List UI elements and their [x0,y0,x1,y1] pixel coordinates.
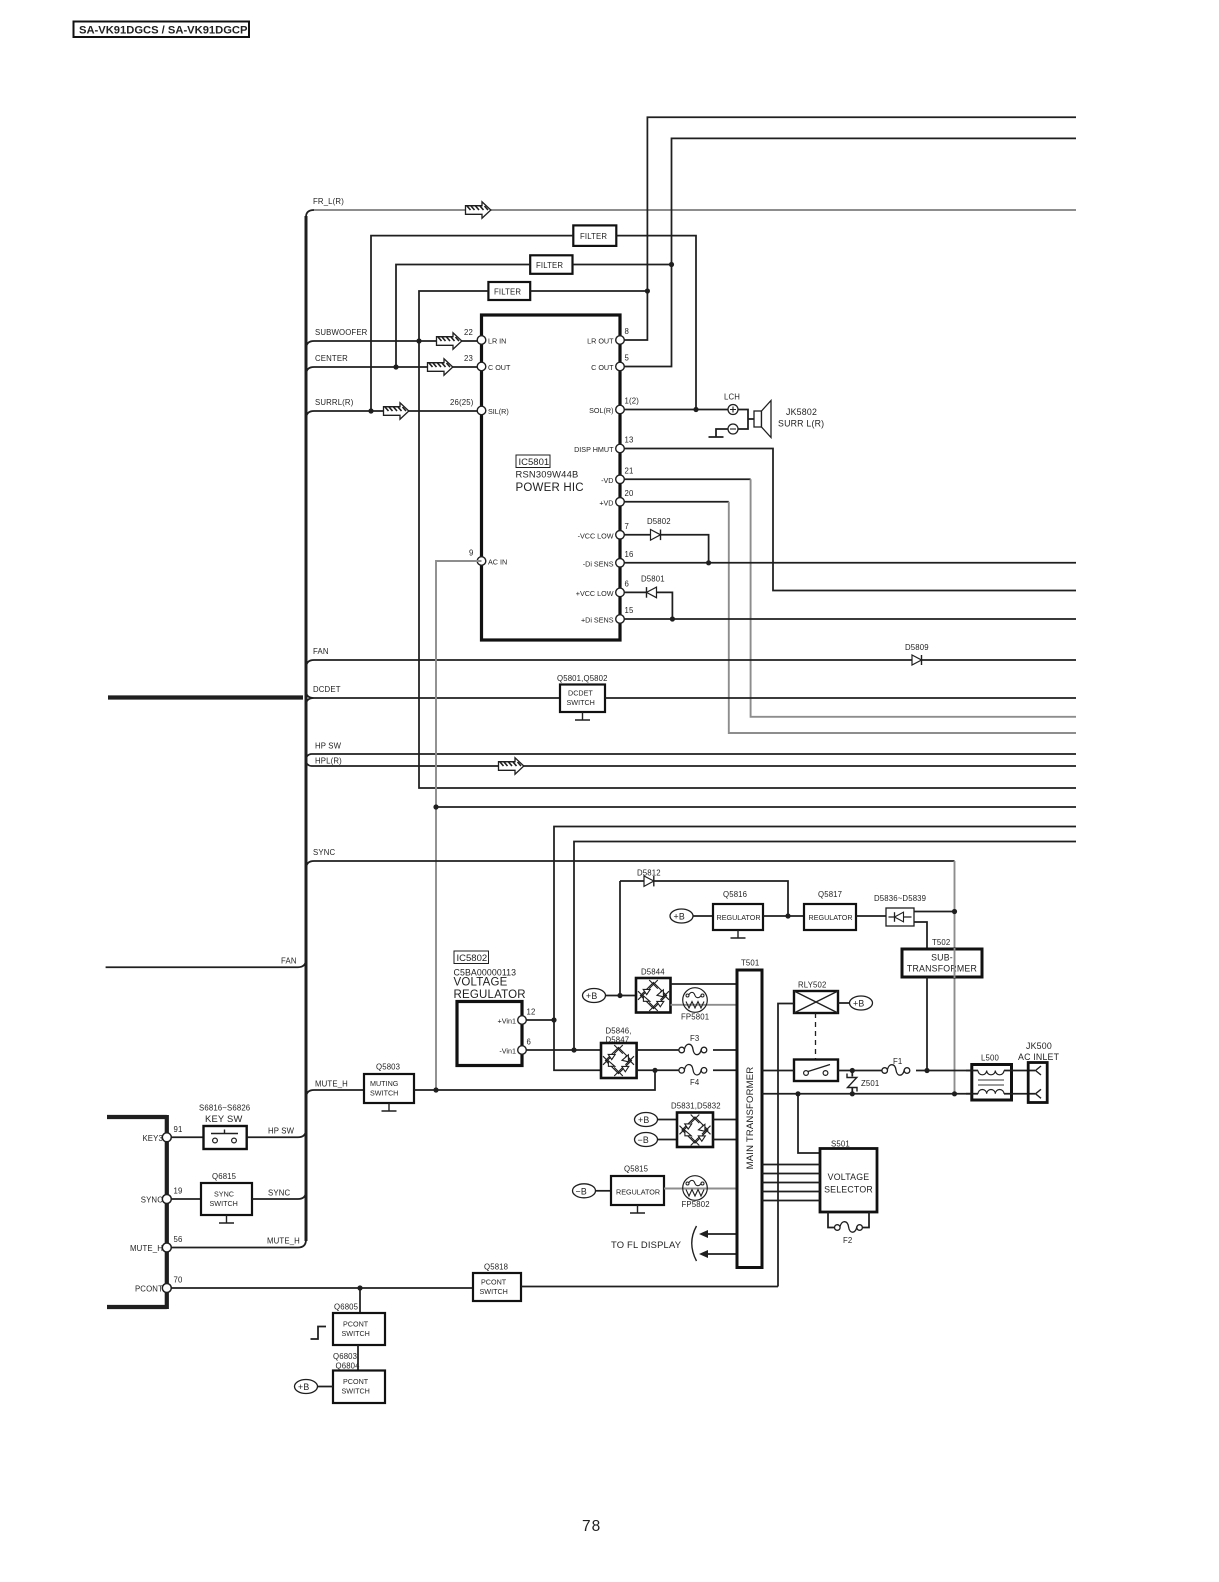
svg-text:22: 22 [464,328,473,337]
diode pack D5836~D5839 [874,894,926,926]
svg-text:−B: −B [638,1135,649,1145]
node junction surrl/filter1 [368,408,373,413]
sub-transformer T502 [902,938,982,977]
svg-text:-VD: -VD [601,476,613,485]
wire gray drop to sub-transformer and AC line [954,861,956,1094]
svg-text:TO FL DISPLAY: TO FL DISPLAY [611,1239,682,1250]
svg-text:-VCC LOW: -VCC LOW [578,531,614,540]
pin 15 +Di SENS [581,606,634,625]
svg-text:PCONT: PCONT [135,1285,163,1294]
step signal symbol (Q6805 input) [311,1327,327,1340]
svg-text:T501: T501 [741,959,759,968]
svg-text:D5836~D5839: D5836~D5839 [874,894,926,903]
wire -Di SENS pin16 [624,562,1076,564]
wire branch at gray junction [436,806,1076,808]
svg-text:POWER HIC: POWER HIC [516,482,584,494]
switch box PCONT SWITCH Q5818 [473,1263,521,1302]
ground (Q5816) [731,930,746,938]
fuse F3 [679,1034,713,1056]
pin 9 AC IN [469,549,507,567]
svg-text:56: 56 [174,1235,183,1244]
wire HPL(R) [312,757,1077,775]
fuse F2 [828,1212,869,1245]
svg-text:1(2): 1(2) [625,397,640,406]
wire filter1 right to SOL(R) line [616,236,696,410]
wire C OUT pin5 riser to top line [620,138,1076,366]
svg-text:D5812: D5812 [637,869,661,878]
wire contact to F1 and L500 [838,1070,972,1072]
svg-text:Q6815: Q6815 [212,1172,237,1181]
wire Q5815 out through FP5802 [664,1188,737,1190]
svg-text:26(25): 26(25) [450,398,474,407]
svg-text:D5801: D5801 [641,575,665,584]
wire -VD pin21 [624,478,750,480]
wire line to IC5802 +Vin1 [554,827,1076,1071]
switch box SYNC SWITCH Q6815 [201,1172,252,1215]
svg-text:AC INLET: AC INLET [1018,1052,1060,1062]
line filter L500 [972,1054,1012,1101]
svg-text:SWITCH: SWITCH [342,1387,370,1396]
svg-text:-Vin1: -Vin1 [499,1047,516,1056]
wire FAN [306,647,1076,668]
svg-text:HP SW: HP SW [315,742,342,751]
wire +B to Q6803 box [318,1386,334,1388]
ground (speaker -) [709,429,729,437]
diode D5802 [647,517,671,540]
svg-text:Q5817: Q5817 [818,890,842,899]
wire -B to Q5815 [596,1190,612,1192]
svg-text:SIL(R): SIL(R) [488,407,509,416]
node +B (relay) [850,996,873,1010]
wires D5831 outputs to transformer [713,1120,737,1140]
svg-text:MUTING: MUTING [370,1079,399,1088]
svg-text:KEY SW: KEY SW [205,1113,243,1124]
svg-text:FILTER: FILTER [580,232,607,241]
node +B (D5844) [583,989,606,1003]
svg-text:+B: +B [638,1115,649,1125]
svg-text:Q6803,: Q6803, [333,1352,359,1361]
svg-text:RSN309W44B: RSN309W44B [516,469,579,480]
wire CENTER [306,354,477,375]
wire +B to D5844 [606,995,637,997]
svg-text:FILTER: FILTER [494,288,521,297]
wire diode pack lower out to T502 [914,922,927,949]
svg-text:VOLTAGE: VOLTAGE [454,977,508,989]
svg-text:5: 5 [625,354,630,363]
regulator Q5815 [611,1165,664,1206]
node -B (D5831) [635,1133,658,1147]
svg-text:VOLTAGE: VOLTAGE [828,1172,870,1182]
fuse FP5801 [681,988,709,1022]
svg-text:SWITCH: SWITCH [567,698,595,707]
node LCH - terminal [728,424,738,434]
wire +Di SENS pin15 [624,618,1076,620]
diode D5812 [620,869,788,917]
wire from filter3 riser down to right [419,341,1076,788]
svg-text:LR OUT: LR OUT [587,337,614,346]
svg-text:FP5801: FP5801 [681,1013,709,1022]
wire PCONT to pcont switch [171,1287,473,1289]
wire -Vin1 to bridge [526,1049,601,1051]
pin 19 SYNC [141,1187,183,1205]
relay RLY502 coil [794,981,838,1014]
filter box FILTER (bottom) [488,282,530,300]
svg-text:DISP HMUT: DISP HMUT [574,445,614,454]
wire HP SW [306,742,1076,767]
connector JK500 AC INLET [1018,1041,1060,1103]
switch box PCONT SWITCH Q6803,Q6804 [333,1352,385,1403]
svg-text:SELECTOR: SELECTOR [824,1185,873,1195]
relay contact box [794,1060,838,1082]
wire LR OUT pin8 riser to top line [620,117,1076,340]
main transformer T501 [737,959,762,1268]
node -B (Q5815) [573,1184,596,1198]
TO FL DISPLAY arrows [611,1226,737,1261]
svg-text:91: 91 [174,1125,183,1134]
svg-text:SURRL(R): SURRL(R) [315,398,354,407]
wire FR_L(R) [306,197,1076,218]
svg-text:70: 70 [174,1276,183,1285]
svg-text:SWITCH: SWITCH [210,1199,238,1208]
svg-text:12: 12 [527,1008,536,1017]
svg-text:Q5801,Q5802: Q5801,Q5802 [557,674,608,683]
wire sync gray through T502 [954,948,956,978]
svg-text:SYNC: SYNC [313,848,335,857]
bus: main vertical wire bus [305,216,308,1241]
svg-text:D5844: D5844 [641,968,665,977]
svg-text:MUTE_H: MUTE_H [267,1237,300,1246]
wire relay coil left to PCONT riser [778,1004,794,1287]
svg-text:JK5802: JK5802 [786,407,817,417]
svg-text:S6816~S6826: S6816~S6826 [199,1104,250,1113]
wire +VD pin20 [624,501,729,503]
svg-text:7: 7 [625,522,630,531]
wire filter3 right to LR OUT riser [530,290,647,292]
svg-text:AC IN: AC IN [488,558,507,567]
fuse F4 [679,1064,713,1087]
svg-text:15: 15 [625,606,634,615]
svg-text:PCONT: PCONT [343,1320,369,1329]
pin 56 MUTE_H [130,1235,182,1253]
ground (sync switch) [219,1215,234,1223]
pin 23 C OUT [464,354,511,372]
svg-text:PCONT: PCONT [481,1278,507,1287]
node +B (Q6803) [295,1380,318,1394]
svg-text:FP5802: FP5802 [682,1200,710,1209]
svg-text:Q5818: Q5818 [484,1263,508,1272]
pin 16 -Di SENS [583,550,634,568]
filter box FILTER (top) [573,225,616,246]
filter box FILTER (middle) [530,255,572,273]
diode D5809 [905,643,929,665]
pin 12 +Vin1 [498,1008,536,1026]
svg-text:F2: F2 [843,1236,852,1245]
IC5802 VOLTAGE REGULATOR box [454,951,526,1066]
svg-text:SYNC: SYNC [268,1189,290,1198]
wire Q5816 to Q5817 [763,915,804,917]
switch box MUTING SWITCH Q5803 [364,1063,414,1104]
wire key sw to bus (HP SW) [247,1127,306,1138]
svg-text:F3: F3 [690,1034,699,1043]
wire line to IC5802 -Vin1 [574,842,1076,1051]
connector bracket (board edge) [107,1115,167,1309]
svg-text:Q5815: Q5815 [624,1165,649,1174]
svg-text:FR_L(R): FR_L(R) [313,197,344,206]
svg-text:MUTE_H: MUTE_H [315,1080,348,1089]
svg-text:L500: L500 [981,1054,999,1063]
svg-text:KEY3: KEY3 [142,1134,163,1143]
svg-text:SWITCH: SWITCH [370,1089,398,1098]
svg-text:IC5801: IC5801 [519,457,550,468]
node LCH + terminal [724,393,740,415]
node +B (D5831) [635,1113,658,1127]
bridge D5844 [636,968,671,1013]
svg-text:Z501: Z501 [861,1079,879,1088]
bridge D5846,D5847 [601,1027,637,1079]
svg-text:+B: +B [853,999,864,1009]
wire SYNC to sync switch [171,1198,201,1200]
svg-text:D5846,: D5846, [606,1027,632,1036]
wire SYNC [306,848,955,869]
pin 6 +VCC LOW [576,580,629,598]
ground (DCDET switch) [575,712,590,720]
switch KEY SW S6816~S6826 [199,1104,250,1150]
svg-text:REGULATOR: REGULATOR [454,989,526,1001]
svg-text:HP SW: HP SW [268,1127,295,1136]
pin 1(2) SOL(R) [589,397,639,416]
wire +VCC LOW pin6 [624,592,672,619]
svg-text:9: 9 [469,549,474,558]
wires to D5831 bridge [658,1120,678,1140]
svg-text:REGULATOR: REGULATOR [809,913,853,922]
pin 70 PCONT [135,1276,183,1294]
node junction center/filter2 [393,364,398,369]
fuse F1 [882,1057,916,1077]
svg-text:FAN: FAN [313,647,329,656]
svg-text:13: 13 [625,436,634,445]
svg-text:8: 8 [625,327,630,336]
svg-text:SOL(R): SOL(R) [589,406,613,415]
svg-text:LCH: LCH [724,393,740,402]
wires transformer taps to selector [762,1165,820,1201]
voltage selector S501 [820,1140,877,1213]
wire speaker terminals [738,410,754,430]
svg-text:SUBWOOFER: SUBWOOFER [315,328,368,337]
pin 26(25) SIL(R) [450,398,509,416]
svg-text:78: 78 [582,1518,601,1535]
wire Q5818 to relay riser [521,1286,778,1288]
svg-text:21: 21 [625,467,634,476]
svg-text:T502: T502 [932,938,950,947]
svg-text:MUTE_H: MUTE_H [130,1244,163,1253]
regulator Q5816 [713,890,763,930]
svg-text:+VCC LOW: +VCC LOW [576,589,614,598]
wire SOL(R) to speaker [624,409,728,411]
svg-text:D5802: D5802 [647,517,671,526]
wire bridge lower output to F4 [637,1069,737,1071]
svg-text:PCONT: PCONT [343,1377,369,1386]
svg-text:23: 23 [464,354,473,363]
svg-text:D5831,D5832: D5831,D5832 [671,1102,721,1111]
svg-text:SWITCH: SWITCH [342,1329,370,1338]
pin 22 LR IN [464,328,506,346]
pin 8 LR OUT [587,327,629,346]
wire sync switch to bus [252,1189,306,1200]
svg-text:CENTER: CENTER [315,354,348,363]
wire AC line to voltage selector [798,1094,820,1153]
wire FAN lower stub [106,957,306,968]
wire D5812 riser to +B rail [619,881,621,996]
svg-text:+Vin1: +Vin1 [498,1017,516,1026]
regulator Q5817 [804,890,856,930]
wire KEY3 to key sw [171,1136,203,1138]
svg-text:C OUT: C OUT [591,363,614,372]
svg-text:SA-VK91DGCS / SA-VK91DGCP: SA-VK91DGCS / SA-VK91DGCP [79,25,248,37]
wire T502 left output down to F1 line [926,977,928,1071]
svg-text:+B: +B [674,912,685,922]
wire thick stub to bus at DCDET [108,695,303,699]
pin 5 C OUT [591,354,629,373]
svg-text:SYNC: SYNC [214,1190,234,1199]
svg-text:REGULATOR: REGULATOR [717,913,761,922]
wires L500 to AC inlet [966,1071,1035,1094]
svg-text:6: 6 [527,1038,532,1047]
svg-text:SURR L(R): SURR L(R) [778,419,824,429]
wire -VCC LOW pin7 [624,535,708,563]
ground (muting switch) [382,1103,397,1111]
svg-text:Q6805: Q6805 [334,1303,359,1312]
pin 21 -VD [601,467,633,485]
svg-text:HPL(R): HPL(R) [315,757,342,766]
svg-text:SUB-: SUB- [931,953,953,963]
svg-text:20: 20 [625,489,634,498]
node junction subwoofer/filter3 [416,338,421,343]
wire Q5817 to diode pack [856,915,886,917]
wire filter3 left to SUBWOOFER [419,291,488,341]
wire MUTE_H to bus [171,1237,306,1248]
pin 6 -Vin1 [499,1038,531,1056]
switch box DCDET SWITCH (Q5801,Q5802) [557,674,608,712]
wire bridge upper output to F3 [637,1049,737,1051]
wire +B to Q5816 [693,915,713,917]
svg-text:DCDET: DCDET [568,689,593,698]
svg-text:IC5802: IC5802 [457,953,488,964]
wire +Vin1 [526,1019,554,1021]
mechanical link dashed [815,1013,817,1060]
wire Q6805 to Q6803 [357,1345,359,1370]
wire D5844 lower output through FP5801 [671,1004,738,1006]
svg-text:MAIN TRANSFORMER: MAIN TRANSFORMER [745,1067,756,1170]
node +B (Q5816) [670,909,693,923]
wire MUTE_H [306,1080,364,1099]
svg-text:6: 6 [625,580,630,589]
pin 13 DISP HMUT [574,436,633,455]
svg-text:-Di SENS: -Di SENS [583,559,614,568]
wire relay coil to +B [838,1002,850,1004]
svg-text:D5809: D5809 [905,643,929,652]
svg-text:Q5816: Q5816 [723,890,747,899]
wire DISP HMUT pin13 [624,449,1076,591]
svg-text:Q5803: Q5803 [376,1063,400,1072]
wire filter2 right to C OUT riser [573,264,672,266]
svg-text:+B: +B [298,1382,309,1392]
ground (Q5815) [630,1205,645,1213]
title box SA-VK91DGCS / SA-VK91DGCP [74,22,250,38]
pin 91 KEY3 [142,1125,182,1143]
speaker JK5802 SURR L(R) [754,401,824,438]
diode D5801 [641,575,665,598]
wire SURRL(R) [306,398,477,419]
svg-text:FILTER: FILTER [536,261,563,270]
wire D5844 upper output [671,983,738,985]
wire AC IN gray vertical [436,561,482,1090]
pin 7 -VCC LOW [578,522,629,540]
svg-text:C OUT: C OUT [488,363,511,372]
svg-text:LR IN: LR IN [488,337,506,346]
svg-text:SYNC: SYNC [141,1196,163,1205]
wire transformer to relay contact [762,1070,794,1072]
svg-text:TRANSFORMER: TRANSFORMER [907,964,977,974]
svg-text:SWITCH: SWITCH [480,1287,508,1296]
wire filter2 left to CENTER [396,265,530,368]
wire PCONT branch down to Q6805 [359,1288,361,1313]
bridge D5831,D5832 [671,1102,721,1148]
svg-text:+B: +B [586,991,597,1001]
wire DCDET switch output [605,697,1076,699]
svg-text:REGULATOR: REGULATOR [616,1188,660,1197]
varistor Z501 [847,1071,879,1094]
pin 20 +VD [599,489,634,507]
wire AC lower line [762,1093,972,1095]
IC5801 POWER HIC box [482,315,621,640]
fuse FP5802 [682,1176,710,1209]
svg-text:JK500: JK500 [1026,1041,1052,1051]
wire diode pack upper out [914,911,955,913]
svg-text:+VD: +VD [599,498,613,507]
wire muting switch output to bridge line [414,1070,655,1090]
svg-text:RLY502: RLY502 [798,981,827,990]
svg-text:19: 19 [174,1187,183,1196]
svg-text:+Di SENS: +Di SENS [581,616,614,625]
svg-text:16: 16 [625,550,634,559]
wire filter1 left to SURRL [371,236,573,411]
wire DCDET [306,685,560,705]
svg-text:−B: −B [576,1186,587,1196]
svg-text:DCDET: DCDET [313,685,341,694]
svg-text:Q6804: Q6804 [336,1362,361,1371]
switch box PCONT SWITCH Q6805 [333,1303,385,1346]
wire SUBWOOFER [306,328,477,349]
svg-text:FAN: FAN [281,957,297,966]
svg-text:F4: F4 [690,1078,700,1087]
